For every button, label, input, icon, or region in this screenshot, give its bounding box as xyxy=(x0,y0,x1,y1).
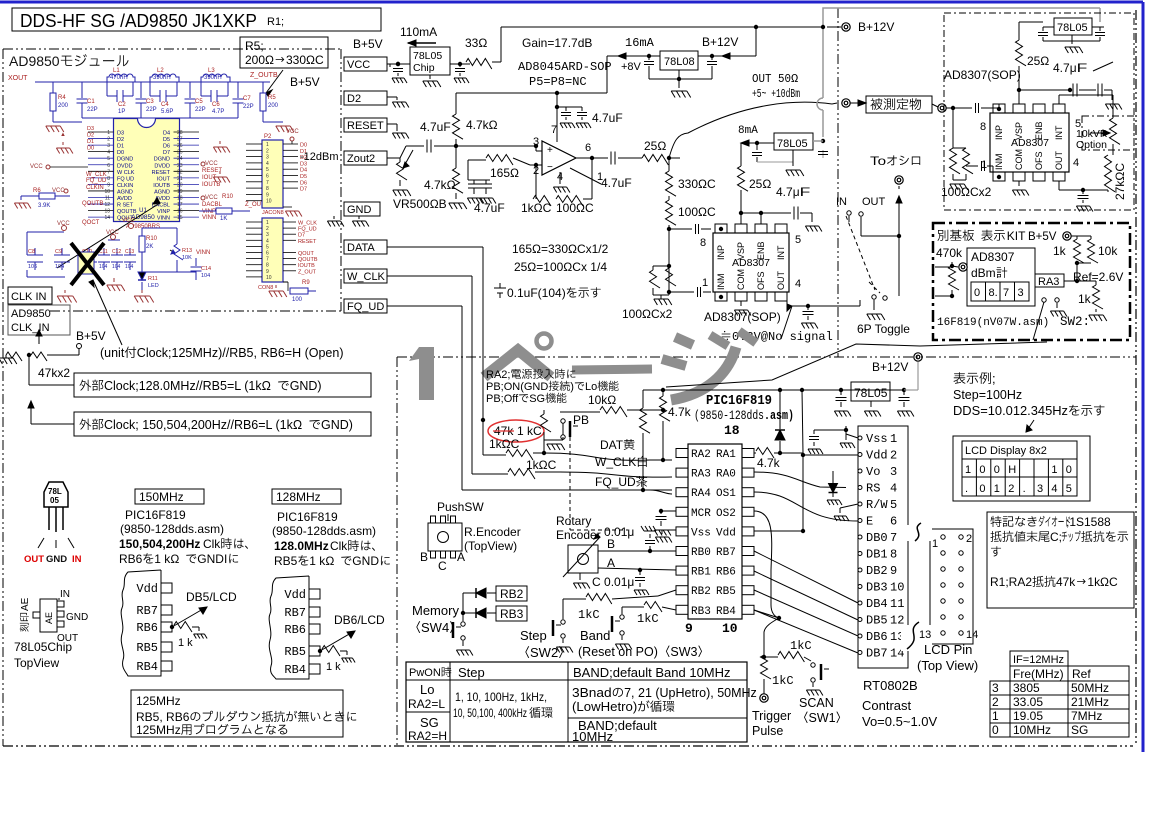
svg-text:2K: 2K xyxy=(146,244,153,250)
CLK_IN box xyxy=(8,287,52,304)
svg-text:D5: D5 xyxy=(163,137,170,143)
svg-text:3: 3 xyxy=(107,143,110,149)
svg-text:SG: SG xyxy=(1071,723,1088,737)
signal box VCC xyxy=(344,57,387,71)
svg-text:B+12V: B+12V xyxy=(872,360,908,374)
crystal caps row right C11 C12 C13 xyxy=(98,254,110,256)
LCD connector body xyxy=(858,426,908,668)
svg-text:DB2: DB2 xyxy=(866,564,888,578)
svg-text:10MHz: 10MHz xyxy=(1013,723,1051,737)
svg-text:MCR: MCR xyxy=(691,508,711,520)
LCD pin grid box xyxy=(930,529,973,644)
svg-text:OUT: OUT xyxy=(862,196,886,208)
watermark long bar xyxy=(572,369,652,370)
svg-text:470k: 470k xyxy=(936,246,963,260)
svg-text:XOUT: XOUT xyxy=(8,75,28,82)
VSP ENB rail xyxy=(740,190,742,224)
svg-text:78L05: 78L05 xyxy=(1057,22,1088,34)
svg-text:RB5: RB5 xyxy=(716,586,736,598)
capacitor C6 xyxy=(200,82,202,96)
resistor 25ohm output xyxy=(642,155,668,166)
svg-text:PIC16F819: PIC16F819 xyxy=(277,510,338,524)
svg-text:1K: 1K xyxy=(220,216,227,222)
Vdd wire xyxy=(754,530,803,532)
svg-text:C12: C12 xyxy=(112,249,121,255)
svg-text:78L05: 78L05 xyxy=(777,138,808,150)
svg-text:;1S1588: ;1S1588 xyxy=(1066,515,1111,529)
svg-text:FQ_UD: FQ_UD xyxy=(86,178,107,184)
RB4 right wire to node xyxy=(754,610,779,618)
svg-text:50MHz: 50MHz xyxy=(1071,681,1109,695)
arrow 110mA xyxy=(408,42,436,44)
svg-text:25Ω: 25Ω xyxy=(644,139,666,153)
svg-text:VCC: VCC xyxy=(30,164,43,170)
svg-text:4: 4 xyxy=(1073,157,1079,169)
svg-text:RB6: RB6 xyxy=(716,567,736,579)
svg-text:PIC16F819: PIC16F819 xyxy=(706,393,772,409)
scan resistor 1kC xyxy=(762,655,766,659)
svg-text:33.05: 33.05 xyxy=(1013,695,1043,709)
watermark numeral 1 xyxy=(419,347,434,400)
IC U3 AD8307 main xyxy=(713,233,789,292)
svg-text:PwON: PwON xyxy=(409,667,441,679)
svg-text:RESET: RESET xyxy=(298,239,317,245)
TO-92 78L05 package xyxy=(44,482,68,507)
trigger wire down xyxy=(764,618,779,655)
resistor 4.7k lower xyxy=(453,168,464,193)
svg-text:C: C xyxy=(315,53,324,67)
svg-text:CLK_IN: CLK_IN xyxy=(11,322,50,334)
wire out path xyxy=(860,217,862,236)
svg-text:9: 9 xyxy=(266,192,269,198)
svg-text:D6: D6 xyxy=(163,144,170,150)
svg-text:1: 1 xyxy=(107,130,110,136)
svg-text:D7: D7 xyxy=(300,187,307,193)
svg-text:4.7k: 4.7k xyxy=(757,456,781,470)
svg-text:+5~ +10dBm: +5~ +10dBm xyxy=(752,87,800,101)
memory switch xyxy=(461,622,465,626)
R6 ground xyxy=(20,196,22,200)
wire +input xyxy=(456,145,536,147)
caps 4.7uF inverting xyxy=(467,160,469,180)
sop OUT wire xyxy=(1058,181,1060,190)
B+12V terminal top xyxy=(842,23,850,31)
svg-text:Fre(MHz): Fre(MHz) xyxy=(1013,667,1064,681)
svg-text:L1: L1 xyxy=(113,68,120,74)
LCD pin grid circles xyxy=(941,535,945,539)
IF table header box xyxy=(1010,651,1068,666)
IC U1 AD9850 body xyxy=(114,119,180,222)
svg-text:100: 100 xyxy=(292,297,303,303)
pic fragment 2 body xyxy=(269,576,309,679)
svg-text:470nH: 470nH xyxy=(110,75,128,81)
diode D11 LED xyxy=(138,272,146,280)
svg-text:19: 19 xyxy=(177,189,183,195)
svg-text:5: 5 xyxy=(107,156,110,162)
svg-text:SW4: SW4 xyxy=(421,620,449,635)
svg-text:Vdd: Vdd xyxy=(136,582,158,596)
RS diode xyxy=(831,486,835,490)
svg-text:SW2:: SW2: xyxy=(1060,315,1090,329)
svg-text:L3: L3 xyxy=(208,68,215,74)
svg-text:100ΩC: 100ΩC xyxy=(678,205,716,219)
note box tokki xyxy=(987,512,1134,608)
svg-text:78L08: 78L08 xyxy=(664,56,695,68)
svg-text:SG: SG xyxy=(529,393,545,405)
frag1 pin RB6 xyxy=(161,622,172,632)
svg-text:AGND: AGND xyxy=(154,189,170,195)
svg-text:Vss: Vss xyxy=(866,432,888,446)
svg-text:DB6/LCD: DB6/LCD xyxy=(334,613,385,627)
svg-text:AD8045ARD-SOP: AD8045ARD-SOP xyxy=(518,60,612,74)
svg-text:5.6P: 5.6P xyxy=(161,109,173,115)
kit ref node xyxy=(1064,280,1096,282)
78L05 mid box xyxy=(774,133,813,150)
resistor 4.7k upper xyxy=(453,114,464,139)
svg-text:VCC: VCC xyxy=(286,129,299,135)
frag2 pin RB5 xyxy=(309,646,320,656)
svg-text:1kΩC: 1kΩC xyxy=(521,201,552,215)
svg-text:RA2=H: RA2=H xyxy=(408,729,447,743)
78L05 chip grounds xyxy=(429,75,431,79)
svg-text:RA1: RA1 xyxy=(716,449,736,461)
svg-text:25: 25 xyxy=(1027,54,1041,68)
ext clock note box 2 xyxy=(74,412,371,436)
svg-text:0: 0 xyxy=(992,723,999,737)
signal box W_CLK xyxy=(344,269,387,283)
wire IN down from switch xyxy=(848,216,850,222)
opamp supply caps xyxy=(557,106,582,108)
svg-text:D6: D6 xyxy=(300,180,307,186)
svg-text:Ω: Ω xyxy=(1100,575,1109,589)
svg-text:R10: R10 xyxy=(222,194,234,200)
svg-text:11: 11 xyxy=(105,196,110,202)
svg-text:150MHz: 150MHz xyxy=(139,490,184,504)
svg-text:18: 18 xyxy=(177,196,183,202)
svg-text:1: 1 xyxy=(890,432,897,446)
svg-text:22P: 22P xyxy=(243,104,254,110)
svg-text:GNDI: GNDI xyxy=(197,552,227,566)
arrow 16mA xyxy=(618,55,649,57)
svg-text:L2: L2 xyxy=(157,68,164,74)
svg-text:Lo: Lo xyxy=(420,682,434,697)
svg-text:150,504,200Hz: 150,504,200Hz xyxy=(119,537,200,551)
svg-text:10: 10 xyxy=(890,581,904,595)
svg-text:7: 7 xyxy=(890,531,897,545)
svg-text:(unit: (unit xyxy=(100,346,125,360)
B+12V rail to 78L05 xyxy=(648,389,904,391)
wire frame DATA to RA2 xyxy=(387,246,483,248)
svg-text:1: 1 xyxy=(994,483,1000,495)
svg-text:11: 11 xyxy=(890,597,904,611)
dBm digits box xyxy=(971,282,1029,301)
svg-text:R SET: R SET xyxy=(117,203,134,209)
svg-text:Lo: Lo xyxy=(585,381,597,393)
svg-text:B+5V: B+5V xyxy=(76,329,106,343)
OS2 curve down xyxy=(754,511,779,618)
PB dashed wire down xyxy=(569,437,571,530)
svg-text:DB1: DB1 xyxy=(866,548,888,562)
gray wire from B12V bus xyxy=(813,140,823,142)
svg-text:78L05: 78L05 xyxy=(854,386,888,400)
svg-text:VCC: VCC xyxy=(205,161,218,167)
frag1 1k resistor xyxy=(170,625,174,629)
svg-text:7: 7 xyxy=(551,124,557,136)
svg-text:OUT 50: OUT 50 xyxy=(752,72,791,86)
svg-text:D2: D2 xyxy=(87,133,94,139)
svg-text:DAT: DAT xyxy=(600,438,624,452)
svg-text:12: 12 xyxy=(104,202,110,208)
svg-text:0.1uF(104): 0.1uF(104) xyxy=(507,286,566,300)
pointer arrow to OUT xyxy=(781,306,792,339)
svg-text:INM: INM xyxy=(994,154,1004,171)
svg-text:IOUT: IOUT xyxy=(157,176,171,182)
svg-text:W CLK: W CLK xyxy=(117,170,135,176)
svg-text:7MHz: 7MHz xyxy=(1071,709,1102,723)
IN OUT switch circles xyxy=(847,211,851,215)
wire frame W_CLK xyxy=(387,275,472,277)
78L05 sop box xyxy=(1054,18,1092,35)
svg-text:Vdd: Vdd xyxy=(284,588,306,602)
svg-text:2: 2 xyxy=(890,449,897,463)
svg-text:KIT: KIT xyxy=(1007,229,1026,243)
svg-text:8.: 8. xyxy=(989,287,998,299)
wire hop to terminal xyxy=(832,103,837,104)
svg-text:22: 22 xyxy=(177,169,183,175)
filter ground rail xyxy=(82,117,238,119)
frag1 pin RB7 xyxy=(161,605,172,615)
MCR cap xyxy=(661,510,676,512)
svg-text:ENB: ENB xyxy=(1034,121,1044,140)
svg-text:4: 4 xyxy=(1051,483,1057,495)
RA3 box xyxy=(1035,274,1064,287)
svg-text:Ref: Ref xyxy=(1072,667,1091,681)
switch dashed linkage xyxy=(846,216,875,290)
kit resistor 1k xyxy=(1071,235,1091,237)
svg-text:RB6: RB6 xyxy=(284,623,306,637)
78L08 box xyxy=(660,51,698,70)
Vss ground xyxy=(662,529,676,531)
svg-text:Ω: Ω xyxy=(563,260,572,274)
svg-text:LED: LED xyxy=(148,283,159,289)
78L08 ground xyxy=(649,78,712,80)
top rail to B12V terminal xyxy=(756,26,823,28)
divider dash-dot vertical x838 xyxy=(837,8,839,357)
svg-text:22P: 22P xyxy=(195,107,206,113)
svg-text:PB;Off: PB;Off xyxy=(486,393,519,405)
svg-text:0: 0 xyxy=(979,464,985,476)
input node dots xyxy=(667,227,671,231)
svg-text:Ω: Ω xyxy=(607,393,616,407)
frag2 pin RB6 xyxy=(309,624,320,634)
svg-text:1, 10, 100Hz, 1kHz,: 1, 10, 100Hz, 1kHz, xyxy=(455,690,547,704)
R5 callout arrow xyxy=(266,70,283,93)
svg-text:14: 14 xyxy=(104,215,110,221)
svg-text:Ω: Ω xyxy=(1040,54,1049,68)
svg-text:1: 1 xyxy=(932,538,938,550)
svg-text:7: 7 xyxy=(266,257,269,263)
module frame dash-dot right xyxy=(340,49,342,311)
svg-text:0.01: 0.01 xyxy=(604,525,628,539)
frag2 pin Vdd xyxy=(309,589,320,599)
svg-text:GND: GND xyxy=(347,204,372,216)
note line 1 xyxy=(990,516,1001,527)
pointer line from crystal to unit clock text xyxy=(93,280,122,345)
svg-text:RB0: RB0 xyxy=(691,547,711,559)
connector P2 body xyxy=(262,140,283,208)
svg-text:-12dBm: -12dBm xyxy=(300,151,339,163)
AD8307 dBm box xyxy=(967,248,1035,306)
svg-text:10k: 10k xyxy=(588,393,608,407)
svg-text:C: C xyxy=(1109,575,1118,589)
78L05 pic box xyxy=(851,382,890,401)
RA0 to RS curve xyxy=(754,472,846,488)
svg-text:μ: μ xyxy=(627,575,634,589)
svg-text:Cx2: Cx2 xyxy=(970,185,992,199)
svg-text:ENB: ENB xyxy=(756,241,766,260)
svg-text:8: 8 xyxy=(700,237,706,249)
svg-text:10K: 10K xyxy=(182,255,192,261)
svg-text:VCC: VCC xyxy=(205,195,218,201)
svg-text:RESET: RESET xyxy=(202,168,222,174)
svg-text:FQ_UD: FQ_UD xyxy=(347,301,384,313)
vsp rail sop xyxy=(1017,88,1021,92)
svg-text:4: 4 xyxy=(890,482,897,496)
watermark katakana pe xyxy=(484,350,551,377)
diode to RA1 xyxy=(779,390,781,429)
DUT to SOP terminal xyxy=(932,104,938,107)
resistor 1kohmC a xyxy=(483,454,506,456)
svg-text:GND: GND xyxy=(46,554,67,565)
svg-text:OS2: OS2 xyxy=(716,508,736,520)
svg-text:17: 17 xyxy=(177,202,183,208)
svg-text:125MHz: 125MHz xyxy=(136,723,181,737)
svg-text:26: 26 xyxy=(177,143,183,149)
divider dash-dot horizontal y357 xyxy=(397,356,1136,358)
svg-text:RB5: RB5 xyxy=(274,554,298,568)
svg-text:F: F xyxy=(1077,61,1088,75)
wire 1kC to RA2 xyxy=(544,453,672,460)
VCC wire to 78L05 xyxy=(387,63,410,65)
LCD display table xyxy=(962,441,1077,496)
svg-text:C1: C1 xyxy=(87,99,95,105)
OS1 to E curve xyxy=(754,492,858,521)
svg-text:D7: D7 xyxy=(298,233,305,239)
svg-text:CON8: CON8 xyxy=(258,285,273,291)
svg-text:20: 20 xyxy=(177,182,183,188)
svg-text:JACON8: JACON8 xyxy=(262,210,284,216)
svg-text:200: 200 xyxy=(245,53,265,67)
svg-text:IOUTB: IOUTB xyxy=(153,183,170,189)
svg-text:VCC: VCC xyxy=(122,218,135,224)
arrow up to oscillo xyxy=(898,196,900,236)
svg-text:7: 7 xyxy=(1003,287,1009,299)
svg-text:5: 5 xyxy=(795,234,801,246)
output wire xyxy=(576,157,608,159)
svg-text:0: 0 xyxy=(1066,464,1072,476)
note line 2 xyxy=(990,531,1001,542)
svg-text:4.7k: 4.7k xyxy=(668,405,692,419)
svg-text:TopView: TopView xyxy=(14,656,59,670)
svg-text:RB3: RB3 xyxy=(691,606,711,618)
svg-text:R4: R4 xyxy=(58,95,66,101)
resistor 100ohmC feedback xyxy=(556,196,583,207)
CON8 ground xyxy=(269,290,283,292)
svg-text:D7: D7 xyxy=(163,150,170,156)
opamp pin1 stub xyxy=(570,168,601,184)
B+12V terminal mid xyxy=(914,353,922,361)
svg-text:FQ UD: FQ UD xyxy=(117,176,134,182)
svg-text:47k: 47k xyxy=(1056,575,1076,589)
svg-text:Vdd: Vdd xyxy=(716,527,736,539)
pot VR500 from Zout2 xyxy=(387,157,400,159)
svg-text:Ω: Ω xyxy=(262,379,271,393)
svg-text:B: B xyxy=(420,550,428,564)
svg-text:(9850-128dds.asm): (9850-128dds.asm) xyxy=(120,522,224,536)
svg-text:10k: 10k xyxy=(1098,244,1118,258)
svg-text:AVDD: AVDD xyxy=(117,196,132,202)
svg-text:C7: C7 xyxy=(243,96,251,102)
svg-text:AGND: AGND xyxy=(117,189,133,195)
svg-text:10: 10 xyxy=(722,621,738,636)
top rail junction xyxy=(754,25,758,29)
resistor 25ohm vsp xyxy=(738,166,749,191)
svg-text:(LowHetro): (LowHetro) xyxy=(572,700,637,714)
inductor L1 xyxy=(107,74,135,82)
svg-text:AD8307(SOP): AD8307(SOP) xyxy=(944,68,1021,82)
output node to curve xyxy=(669,102,832,158)
R5 callout box xyxy=(240,37,328,68)
wire dBm to pic xyxy=(935,295,952,297)
svg-text:104: 104 xyxy=(112,264,121,270)
svg-text:SG: SG xyxy=(420,715,439,730)
svg-text:9: 9 xyxy=(107,182,110,188)
svg-text:16mA: 16mA xyxy=(625,36,655,50)
coupling cap 4.7uF output xyxy=(610,152,612,165)
capacitor C4 xyxy=(149,82,151,96)
LCD display outer box xyxy=(953,436,1090,501)
crystal caps row left C8 C9 C10 xyxy=(27,254,43,256)
svg-text:Ω: Ω xyxy=(568,242,577,256)
signal box DATA xyxy=(344,240,387,254)
svg-text:5: 5 xyxy=(266,167,269,173)
svg-text:100ΩC: 100ΩC xyxy=(556,201,594,215)
frag2 pin RB4 xyxy=(309,664,320,674)
svg-text:DB5: DB5 xyxy=(866,614,888,628)
svg-text:Vo=0.5~1.0V: Vo=0.5~1.0V xyxy=(862,714,938,729)
wire to ext clock box1 xyxy=(28,355,30,385)
capacitor C5 xyxy=(189,82,191,98)
svg-text:AD9850: AD9850 xyxy=(131,214,155,221)
U1 pin rows xyxy=(88,131,114,133)
svg-text:Clk: Clk xyxy=(330,539,348,553)
svg-text:IN: IN xyxy=(72,554,82,565)
svg-text:13: 13 xyxy=(104,209,110,215)
TO-92 legs xyxy=(48,507,50,530)
svg-text:Ω: Ω xyxy=(293,418,302,432)
svg-text:1 k: 1 k xyxy=(309,554,326,568)
svg-text:C6: C6 xyxy=(212,102,220,108)
pointer line from U1 to CLK_IN text xyxy=(57,203,160,268)
oscilloscope terminal xyxy=(895,176,903,184)
svg-text:390nH: 390nH xyxy=(153,75,171,81)
svg-text:VSP: VSP xyxy=(1014,122,1024,140)
svg-text:VINN: VINN xyxy=(157,216,170,222)
svg-text:4.7uF: 4.7uF xyxy=(420,120,451,134)
svg-text:25: 25 xyxy=(177,150,183,156)
frag1 pin RB5 xyxy=(161,642,172,652)
svg-text:E: E xyxy=(866,515,873,529)
